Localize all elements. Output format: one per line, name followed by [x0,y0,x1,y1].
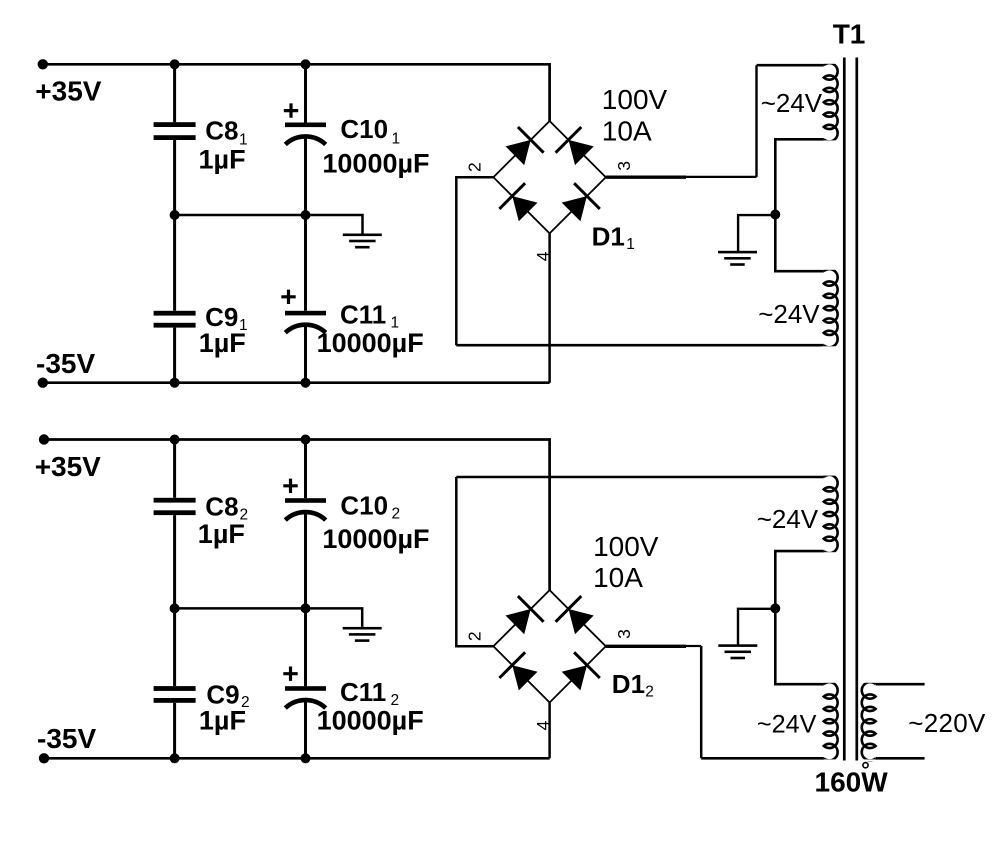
wire bridge2 pin3 net to corner [686,645,701,647]
svg-text:~220V: ~220V [908,708,986,738]
ground symbol GND (section 2 filter) [343,627,382,630]
wire bridge1 AC lower run to winding ~24V (y=345) [456,344,824,347]
capacitor C10_1 plus sign [284,103,298,117]
wire mid rail (section 2) to ground [175,608,363,627]
svg-text:-35V: -35V [37,723,96,754]
transformer winding ~24V #3 [824,475,838,553]
wire C8_2 top lead [173,440,176,498]
wire centre-tap down to winding4 top [775,608,824,684]
svg-text:T1: T1 [833,19,866,50]
wire +35V rail (section 2) with corner down to bridge D1_2 pin 1 [44,440,550,591]
capacitor C11_1 plus sign [281,290,295,304]
diode D1_1 bottom-right [562,196,587,221]
wire bridge2 pin3 vertical down [700,646,703,758]
bridge rectifier D1_2 diamond outline [493,590,605,702]
wire bridge2 pin4 vertical to -35V rail [548,703,551,759]
wire C9_2 top lead [173,608,176,686]
diode D1_2 bottom-right [562,665,587,690]
capacitor C10_2 plus sign [283,479,297,493]
wire C10_1 bottom lead [304,136,307,215]
wire C9_1 bottom lead [173,328,176,383]
ground symbol GND at transformer (section 2) [718,644,757,647]
wire C11_2 bottom lead [304,700,307,758]
capacitor C8_2 plates [154,498,196,503]
node -35V terminal dot (section 2) [39,753,49,763]
svg-text:1µF: 1µF [199,706,246,736]
transformer T1 core line right [855,58,858,761]
svg-text:~24V: ~24V [758,299,820,329]
svg-text:-35V: -35V [36,348,95,379]
wire primary ~220V bottom lead [876,757,925,760]
transformer winding ~24V #2 [824,269,838,347]
svg-text:1: 1 [626,236,635,253]
svg-text:10A: 10A [602,115,652,146]
junction dot -rail2/C9_2 [170,753,180,763]
capacitor C11_2 plus sign [283,667,297,681]
svg-text:~24V: ~24V [761,88,823,118]
svg-text:100V: 100V [602,84,668,115]
svg-text:1µF: 1µF [199,328,246,358]
svg-text:100V: 100V [593,531,659,562]
wire bridge1 pin3 stub (thick) [606,175,686,178]
svg-text:160W: 160W [815,767,889,798]
wire C11_1 top lead [304,215,307,311]
wire winding1 bottom to centre-tap [775,139,824,214]
wire winding1 top lead [757,64,824,67]
wire centre-tap to ground (section 1) [738,215,775,251]
wire bridge2 pin2 stub [456,645,493,648]
svg-text:10000µF: 10000µF [322,149,429,179]
svg-text:D1: D1 [592,221,625,251]
svg-text:10A: 10A [593,562,643,593]
svg-text:C11: C11 [340,299,386,329]
diode D1_2 top-left (anode pin2 side) [506,609,531,634]
junction dot mid/C8_1 [170,210,180,220]
wire C10_2 top lead [304,440,307,499]
svg-text:2: 2 [465,631,485,641]
transformer winding ~24V #4 (bottom) [824,682,838,760]
svg-text:C8: C8 [205,115,238,145]
junction dot rail2/C10_2 [301,435,311,445]
svg-text:C11: C11 [340,677,386,707]
wire C11_2 top lead [304,608,307,686]
diode D1_1 bottom-left [512,196,537,221]
junction dot mid/C10_1 [301,210,311,220]
junction dot rail/C10_1 [301,59,311,69]
node +35V terminal dot (section 2) [39,434,49,444]
node +35V terminal dot (section 1) [38,59,48,69]
junction dot mid2/C8_2 [170,603,180,613]
wire bridge2 pin2 vertical up [455,477,458,648]
wire +35V rail (section 1) with corner down to bridge D1_1 pin 1 [43,64,550,121]
diode D1_2 bottom-left [512,665,537,690]
capacitor C10_2 plates (polarized) [285,498,326,503]
wire -35V rail (section 2) [44,757,550,760]
svg-text:~24V: ~24V [757,504,819,534]
wire C10_1 top lead [304,64,307,122]
junction dot -rail/C11_1 [301,378,311,388]
wire C11_1 bottom lead [304,325,307,383]
wire vertical up to winding ~24V top (x=756.5) [755,65,757,177]
transformer winding ~24V #1 (top) [824,63,838,141]
transformer T1 core line left [843,58,846,761]
svg-text:4: 4 [533,251,553,261]
wire bridge1 pin2 stub [456,176,493,179]
svg-text:3: 3 [614,161,634,171]
capacitor C11_2 plates (polarized) [285,686,326,691]
wire winding3 bottom to centre-tap (section 2) [775,551,824,608]
wire bridge1 pin4 vertical to -35V rail [548,233,551,382]
svg-text:C10: C10 [340,114,388,144]
wire C8_2 bottom lead [173,515,176,608]
svg-text:2: 2 [392,506,401,523]
wire bridge2 AC lower run to winding ~24V (y=758) [701,757,824,760]
svg-text:1: 1 [392,130,401,147]
svg-text:D1: D1 [612,669,645,699]
wire C8_1 bottom lead [173,140,176,215]
svg-text:+35V: +35V [35,75,101,106]
junction dot rail2/C8_2 [170,435,180,445]
svg-text:10000µF: 10000µF [322,524,429,554]
wire C8_1 top lead [173,64,176,122]
junction dot centre-tap (section 2) [770,603,780,613]
svg-text:4: 4 [533,720,553,730]
junction dot -rail/C9_1 [170,378,180,388]
svg-text:2: 2 [465,162,485,172]
wire primary ~220V top lead [876,683,925,686]
wire bridge1 pin2 vertical down [455,176,458,345]
wire centre-tap down to winding2 top [775,215,824,272]
node -35V terminal dot (section 1) [38,378,48,388]
diode D1_1 top-right (anode pin3 side) [569,140,594,165]
wire C10_2 bottom lead [304,512,307,608]
capacitor C11_1 plates (polarized) [285,311,326,316]
wire -35V rail (section 1) [43,381,550,384]
svg-text:~24V: ~24V [757,711,817,739]
wire bridge1 pin3 net to transformer [686,176,757,178]
wire mid rail (section 1) to ground [175,215,363,234]
diode D1_1 top-left (anode pin2 side) [506,140,531,165]
svg-text:10000µF: 10000µF [317,706,424,736]
capacitor C9_2 plates [154,686,196,691]
junction dot centre-tap (section 1) [770,210,780,220]
ground symbol GND at transformer (section 1) [718,251,757,254]
diode D1_2 top-right (anode pin3 side) [569,609,594,634]
svg-text:10000µF: 10000µF [317,328,424,358]
capacitor C9_1 plates [154,311,196,316]
wire C9_2 bottom lead [173,703,176,759]
junction dot -rail2/C11_2 [301,753,311,763]
phase dot (primary winding) [863,763,868,768]
junction dot rail/C8_1 [170,59,180,69]
wire bridge2 AC upper run to winding ~24V (y=477) [456,476,824,479]
bridge rectifier D1_1 diamond outline [493,121,605,233]
wire bridge2 pin3 stub (thick) [606,645,686,648]
ground symbol GND (section 1 filter) [343,234,382,237]
svg-text:2: 2 [645,683,654,700]
capacitor C8_1 plates [154,122,196,127]
svg-text:C8: C8 [205,492,238,522]
svg-text:3: 3 [614,629,634,639]
svg-text:+35V: +35V [35,451,101,482]
transformer primary winding ~220V [862,682,876,760]
wire C9_1 top lead [173,215,176,311]
junction dot mid2/C10_2 [301,603,311,613]
svg-text:C10: C10 [340,491,388,521]
svg-text:1µF: 1µF [198,519,245,549]
wire centre-tap to ground (section 2) [738,609,775,645]
svg-text:1µF: 1µF [199,145,246,175]
capacitor C10_1 plates (polarized) [285,123,326,128]
